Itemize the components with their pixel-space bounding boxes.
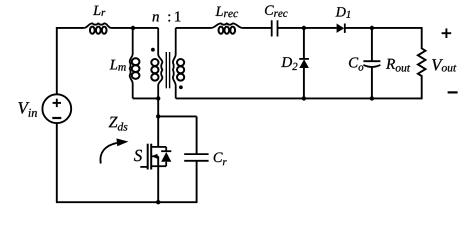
inductor Lm (magnetizing) — [130, 28, 140, 99]
node junction Co top — [370, 26, 374, 30]
wire left column bottom (Vin- to bottom wire) — [56, 123, 58, 202]
capacitor Co — [363, 60, 380, 62]
polarity dot primary — [151, 48, 155, 52]
label Vout — [432, 59, 456, 71]
label Lrec — [215, 7, 238, 18]
wire Cr top lead — [196, 116, 198, 154]
wire top (Lr to transformer primary) — [111, 27, 158, 29]
wire Cr bottom lead — [196, 161, 198, 203]
label Cr — [214, 153, 227, 166]
label Lr — [93, 6, 105, 16]
label Lm — [110, 60, 126, 71]
node junction Cr tap — [156, 114, 160, 118]
Vout plus sign — [442, 32, 452, 34]
wire top (D1 to right corner) — [345, 27, 423, 29]
capacitor Co branch wire top — [371, 28, 373, 61]
label Rout — [386, 59, 410, 72]
label D2 — [281, 57, 297, 70]
wire bottom-left — [56, 201, 197, 203]
wire drain (node to MOSFET) — [157, 98, 159, 146]
node junction primary-bottom/drain — [156, 96, 160, 100]
capacitor Crec — [271, 20, 273, 36]
transformer core — [165, 52, 167, 88]
source Vin (circle) — [42, 94, 71, 123]
diode D1 — [337, 24, 345, 33]
transistor S (MOSFET with body diode) — [140, 144, 171, 170]
inductor Lr — [84, 23, 111, 33]
label Crec — [265, 5, 288, 17]
Vin minus sign — [52, 117, 61, 119]
annotation arrow Zds — [100, 143, 116, 164]
transformer T1 secondary winding — [173, 28, 184, 99]
diode D2 branch wire top — [303, 28, 305, 59]
wire output bottom — [176, 97, 423, 99]
resistor Rout — [418, 28, 426, 99]
node junction source/bottom wire — [156, 200, 160, 204]
label Vin — [18, 102, 37, 117]
Vin plus sign — [53, 102, 61, 104]
wire Cr tap horizontal — [158, 115, 196, 117]
wire top-left (Vin to Lr) — [56, 27, 84, 29]
node junction D2 top — [302, 26, 306, 30]
capacitor Cr — [184, 153, 208, 155]
wire top (Crec to D1) — [278, 27, 337, 29]
transformer T1 primary winding — [151, 28, 162, 99]
wire top (Lrec to Crec) — [242, 27, 272, 29]
polarity dot secondary — [179, 85, 183, 89]
wire source (MOSFET to bottom) — [157, 156, 159, 202]
inductor Lrec — [212, 23, 242, 33]
label S — [134, 150, 142, 162]
Vout minus sign — [448, 91, 458, 93]
wire primary bottom (Lm to drain node) — [133, 97, 159, 99]
node junction Co bottom — [370, 96, 374, 100]
label D1 — [336, 7, 351, 18]
wire left column top (Vin+ to top wire) — [56, 27, 58, 94]
diode D2 branch wire bottom — [303, 68, 305, 98]
wire top (secondary to Lrec) — [176, 27, 212, 29]
capacitor Co branch wire bottom — [371, 67, 373, 99]
node junction Lr/Lm — [131, 26, 135, 30]
diode D2 — [299, 58, 309, 60]
label Zds — [109, 117, 128, 131]
label n:1 turns ratio — [153, 12, 181, 22]
label Co — [349, 58, 363, 71]
node junction D2 bottom — [302, 96, 306, 100]
